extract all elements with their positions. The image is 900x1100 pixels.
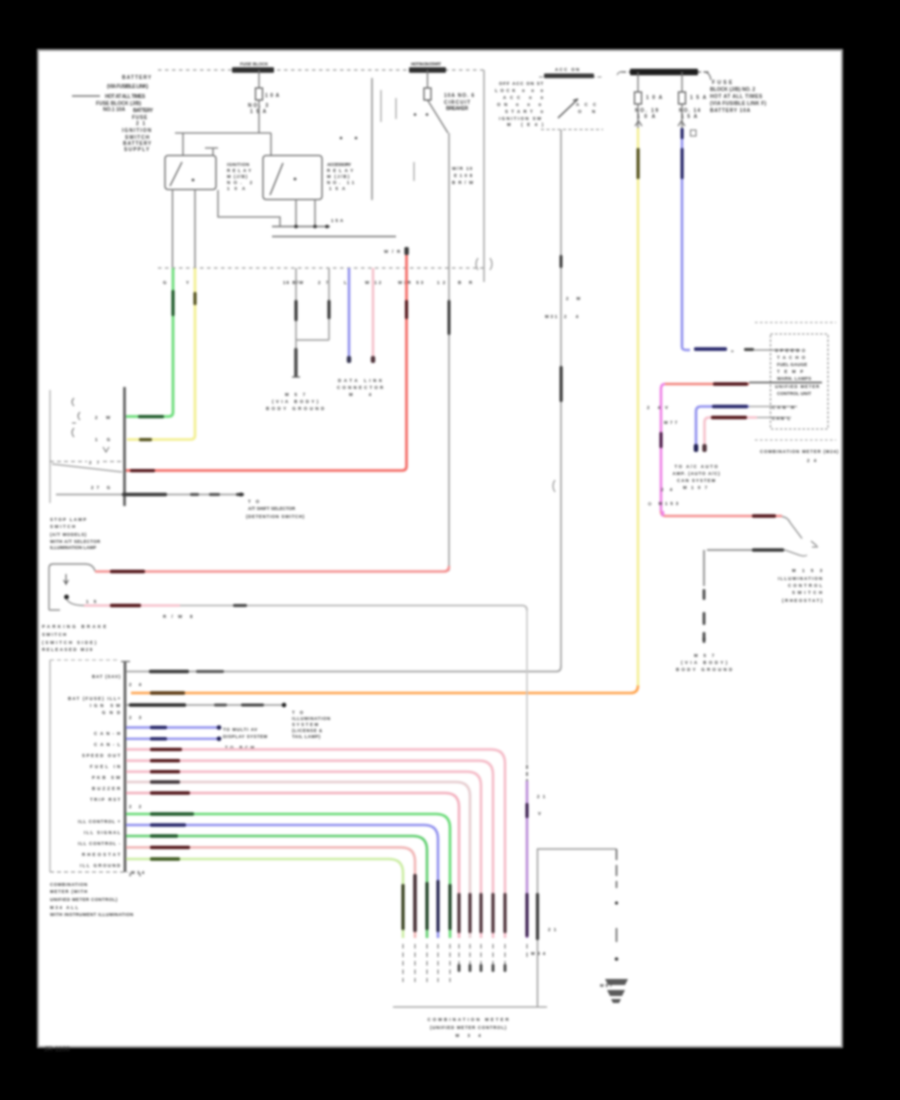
wire leader into meter box: [754, 349, 800, 351]
wire gray illumination return: [707, 549, 785, 551]
svg-text:BATTERY: BATTERY: [133, 108, 154, 114]
fuse F1 10A: [258, 70, 260, 133]
wire ground branch (from relay bus): [296, 268, 329, 348]
svg-text:TO MULTI AV: TO MULTI AV: [223, 727, 257, 732]
ground G2 body ground: [605, 979, 628, 1003]
wire light green ill ground: [126, 859, 403, 938]
connector M34 cluster dashed box: [49, 660, 51, 872]
svg-text:OFF ACC ON ST: OFF ACC ON ST: [499, 81, 544, 86]
wire green ill control plus: [126, 814, 450, 938]
svg-text:BUZZER: BUZZER: [92, 786, 121, 791]
svg-text:(UNIFIED METER CONTROL): (UNIFIED METER CONTROL): [430, 1025, 507, 1030]
svg-text:15A: 15A: [250, 109, 267, 115]
wire green ill control minus: [126, 836, 427, 938]
svg-text:M34: M34: [531, 951, 546, 956]
svg-text:GND: GND: [102, 710, 120, 715]
svg-text:M57: M57: [600, 983, 613, 988]
svg-text:CONTROL UNIT: CONTROL UNIT: [777, 391, 812, 396]
svg-text:TO A/C AUTO: TO A/C AUTO: [675, 464, 719, 469]
wire red acc feed to meter: [665, 383, 749, 386]
component box combination meter: [771, 334, 829, 429]
pin heads bottom row: [458, 964, 507, 972]
wire gray output (shift lock): [56, 494, 242, 496]
ground G1 (body ground): [266, 392, 324, 411]
pin name labels column: [68, 674, 121, 868]
ignition switch connector dashed edge: [541, 129, 603, 131]
wire pink parking brake signal: [84, 604, 180, 606]
stub lines: [381, 90, 414, 181]
svg-text:HOT AT ALL TIMES: HOT AT ALL TIMES: [710, 94, 763, 100]
wire blue DLC K-line: [348, 268, 351, 359]
wire gray leaders into meter: [749, 406, 797, 408]
svg-text:SPEEDO: SPEEDO: [775, 348, 806, 353]
wire yellow ignition feed (vertical): [637, 128, 640, 686]
switch S2 label block: [42, 624, 106, 652]
connector M24 label block: [50, 517, 101, 550]
connector M24 upper (dashed box): [49, 390, 51, 503]
wire pink DLC L-line: [372, 268, 375, 359]
svg-text:WARN. LAMPS: WARN. LAMPS: [777, 376, 811, 381]
wire gray-pink buzzer: [126, 782, 470, 938]
wire pink speed out: [126, 749, 505, 938]
svg-text:BLOCK (J/B) NO. 2: BLOCK (J/B) NO. 2: [710, 87, 755, 93]
svg-text:SYSTEM: SYSTEM: [292, 722, 319, 727]
relay K2 label text: [327, 162, 355, 191]
node TO ILLUMINATION SYSTEM: [292, 710, 330, 739]
svg-text:WITH A/T SELECTOR: WITH A/T SELECTOR: [50, 539, 101, 544]
svg-text:M (J/B): M (J/B): [227, 174, 248, 179]
node label FUSE BLOCK (J/B) right: [710, 80, 767, 114]
svg-text:ILLUMINATION LAMP: ILLUMINATION LAMP: [50, 545, 96, 550]
bus dashed bold (HOT AT ALL TIMES right): [621, 71, 709, 73]
svg-text:TAIL LAMP): TAIL LAMP): [292, 734, 321, 739]
wire JB right edge drop: [483, 70, 485, 282]
wire diagonal into connector: [52, 464, 122, 472]
svg-text:DISPLAY SYSTEM: DISPLAY SYSTEM: [223, 734, 268, 739]
connector M24 rail: [123, 387, 126, 506]
svg-text:(VIA FUSIBLE LINK F): (VIA FUSIBLE LINK F): [710, 101, 767, 107]
svg-text:(VIA FUSIBLE LINK): (VIA FUSIBLE LINK): [107, 84, 149, 90]
svg-text:10A: 10A: [265, 93, 280, 99]
wire circuit breaker output: [448, 133, 450, 571]
bus JB internal bar 2: [272, 236, 396, 238]
ignition switch U1 position table: [495, 81, 544, 127]
svg-text:BREAKER: BREAKER: [446, 106, 469, 112]
wire hook to fuse block label: [705, 72, 711, 80]
svg-text:ILL CONTROL -: ILL CONTROL -: [78, 841, 121, 846]
svg-text:WITH INSTRUMENT ILLUMINATION: WITH INSTRUMENT ILLUMINATION: [50, 912, 133, 917]
wire orange battery save: [131, 686, 638, 694]
svg-text:COMBINATION METER (M24): COMBINATION METER (M24): [760, 449, 839, 454]
wire K1 pin2 Z-path to bus: [218, 190, 280, 226]
wire pink parking signal: [126, 772, 481, 938]
wire blue meter feed (vertical): [681, 128, 684, 347]
bus dashed line D2 (connector row): [158, 267, 487, 269]
fuse F3 10A: [637, 72, 639, 128]
svg-text:STOP LAMP: STOP LAMP: [50, 517, 86, 522]
connector M34 bottom row pin stubs: [403, 944, 527, 982]
wire blue end hook to W/L label: [682, 347, 690, 350]
svg-text:FUEL GAUGE: FUEL GAUGE: [777, 362, 807, 367]
wire row4 illumination out with junction: [126, 704, 284, 706]
svg-text:SUPPLY: SUPPLY: [124, 147, 150, 153]
svg-text:V: V: [665, 405, 668, 410]
svg-text:BODY GROUND: BODY GROUND: [676, 667, 732, 672]
wire pink trip reset: [126, 793, 459, 938]
svg-text:10A NO. 6: 10A NO. 6: [444, 93, 474, 99]
wire K1 lower pins to connector row: [173, 189, 196, 268]
svg-text:HOT IN ON START: HOT IN ON START: [411, 62, 442, 67]
svg-text:BAT (FUSE) ILL+: BAT (FUSE) ILL+: [68, 696, 121, 701]
svg-text:COMBINATION: COMBINATION: [50, 882, 87, 887]
switch S2 plunger: [64, 574, 69, 584]
svg-text:SPEED OUT: SPEED OUT: [82, 753, 121, 758]
svg-text:JR-1100: JR-1100: [44, 1046, 70, 1053]
switch S1 lever: [558, 99, 578, 118]
svg-text:SWITCH: SWITCH: [50, 524, 75, 529]
svg-text:FUSE BLOCK: FUSE BLOCK: [240, 62, 269, 67]
svg-text:W/R 10: W/R 10: [452, 166, 473, 171]
wire pink rheostat: [126, 847, 415, 938]
fuse F2 and circuit breaker drop: [428, 70, 449, 133]
svg-text:UNIFIED METER: UNIFIED METER: [775, 384, 820, 389]
wire ignition ACC output: [560, 130, 562, 668]
wire row1 ignition signal to cluster: [126, 666, 561, 672]
wire blue ill signal: [126, 825, 438, 938]
node TO CAN system labels: [223, 727, 268, 750]
wire pink fuel: [126, 761, 493, 938]
svg-text:BATTERY 10A: BATTERY 10A: [710, 108, 751, 114]
svg-text:M77: M77: [664, 420, 678, 425]
svg-text:BAT (SAV): BAT (SAV): [92, 674, 121, 679]
svg-text:M57: M57: [694, 653, 715, 658]
svg-text:IGNITION: IGNITION: [227, 162, 249, 167]
meter internal text: [775, 348, 820, 396]
fuse F4 15A: [681, 72, 683, 128]
node label TO AT device: [246, 499, 305, 519]
svg-text:METER (WITH: METER (WITH: [50, 889, 87, 894]
svg-text:(A/T MODELS): (A/T MODELS): [50, 532, 87, 537]
svg-text:COMBINATION METER: COMBINATION METER: [428, 1017, 510, 1022]
svg-text:V: V: [538, 811, 541, 816]
svg-text:IGNITION: IGNITION: [122, 128, 152, 134]
svg-text:M31: M31: [545, 314, 558, 319]
wire red battery feed vertical: [126, 251, 407, 471]
svg-text:CAN SYSTEM: CAN SYSTEM: [677, 478, 716, 483]
connector tag on blue wire: [691, 130, 697, 136]
svg-text:CAN L: CAN L: [772, 416, 791, 421]
bus dashed line D1 (HOT AT ALL TIMES): [158, 69, 485, 71]
wire red stop lamp feed: [95, 566, 449, 572]
pin labels under D2: [163, 280, 473, 285]
switch S3 illumination control lever: [782, 517, 802, 539]
wire green (ignition run): [126, 268, 173, 417]
relay K1 (box with switch): [165, 156, 216, 190]
svg-text:ACCESSORY: ACCESSORY: [327, 162, 351, 167]
svg-text:ILLUMINATION: ILLUMINATION: [292, 716, 330, 721]
svg-text:M57: M57: [285, 392, 306, 397]
connector bottom edge: [393, 1006, 547, 1008]
svg-text:A/T SHIFT SELECTOR: A/T SHIFT SELECTOR: [248, 506, 296, 511]
svg-text:CONNECTOR: CONNECTOR: [337, 385, 384, 390]
relay K2 (box with switch): [263, 156, 322, 200]
node A/C AUTO AMP label: [673, 464, 721, 490]
svg-text:BATTERY: BATTERY: [122, 75, 152, 81]
relay K1 label text: [227, 162, 253, 191]
svg-text:FUSE: FUSE: [132, 115, 148, 121]
connector pin arcs: [72, 398, 109, 452]
svg-text:AMP. (AUTO A/C): AMP. (AUTO A/C): [673, 471, 721, 476]
wire ground from illumination switch: [703, 550, 705, 586]
svg-text:HOT AT ALL TIMES: HOT AT ALL TIMES: [105, 94, 146, 100]
resistor box bottom right: [538, 849, 617, 1007]
svg-text:BODY GROUND: BODY GROUND: [266, 406, 324, 411]
vertical bar line JB: [371, 78, 373, 200]
svg-text:15A: 15A: [331, 218, 344, 223]
svg-text:SWITCH: SWITCH: [42, 632, 66, 637]
switch S2 parking brake box: [49, 564, 95, 610]
wire ground shield segment: [294, 348, 297, 377]
svg-text:Y: Y: [186, 280, 189, 285]
svg-text:IGN SW: IGN SW: [90, 703, 121, 708]
switch S3 label block: [778, 568, 823, 603]
wire K2 lower pins: [296, 199, 315, 226]
svg-text:ILLUMINATION: ILLUMINATION: [778, 576, 822, 581]
svg-text:W/R: W/R: [384, 249, 401, 254]
connector M34 description block: [50, 882, 133, 917]
junction dots row: [340, 137, 343, 140]
pin number labels: [129, 682, 142, 877]
svg-text:15A: 15A: [690, 95, 707, 101]
wire leader to battery text: [72, 95, 100, 97]
svg-text:ILL GROUND: ILL GROUND: [80, 863, 120, 868]
wire relay feed bus: [175, 133, 271, 155]
svg-text:ACC ON: ACC ON: [555, 67, 579, 72]
wire pink L to A/C amp: [705, 418, 758, 448]
wire ground drop from resistor box: [616, 849, 618, 888]
wire CAN-H blue stub: [126, 726, 217, 728]
wire blue L to A/C amp: [696, 407, 749, 448]
svg-text:(LICENSE &: (LICENSE &: [292, 728, 323, 733]
svg-text:15A: 15A: [681, 114, 698, 120]
svg-text:ILL CONTROL +: ILL CONTROL +: [78, 819, 121, 824]
ground G3 label: [676, 653, 732, 672]
svg-text:(DETENTION SWITCH): (DETENTION SWITCH): [246, 514, 305, 519]
connector bracket at E4: [476, 258, 492, 270]
svg-text:NO.1 10A: NO.1 10A: [103, 107, 126, 113]
wire yellow (accessory): [127, 268, 195, 440]
connector M34 rail: [124, 661, 127, 872]
bus JB internal bar 1: [272, 226, 330, 228]
svg-text:10A: 10A: [646, 95, 663, 101]
node label combination meter bottom: [428, 1017, 510, 1038]
svg-text:UNIFIED METER CONTROL): UNIFIED METER CONTROL): [50, 897, 118, 902]
wire CAN-L blue stub: [126, 738, 217, 740]
svg-text:16 B/W: 16 B/W: [283, 280, 304, 285]
wire magenta to red illumination feed: [661, 511, 782, 516]
wire purple parking brake to meter: [526, 611, 528, 765]
node B+ label block top-left: [96, 75, 154, 153]
connector DLC label: [337, 378, 384, 397]
connector bracket on ignition wire: [553, 480, 555, 492]
wire magenta corner from red: [661, 384, 665, 511]
